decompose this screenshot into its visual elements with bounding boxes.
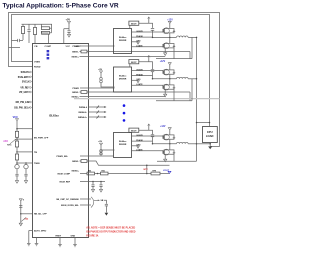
wire UGATE — [132, 31, 163, 33]
supply +5V arrow — [68, 21, 71, 23]
body diode Q4 — [170, 85, 174, 86]
svg-text:VSEN: VSEN — [34, 61, 40, 63]
wire diode leg down — [173, 48, 175, 59]
ground x36.5 — [35, 243, 39, 245]
resistor R_EN3 — [15, 154, 18, 160]
svg-text:CPU: CPU — [207, 130, 213, 134]
svg-text:PHASE: PHASE — [136, 139, 143, 142]
ground chain1 — [15, 181, 18, 184]
wire VOUT bus — [196, 37, 198, 143]
node TSEN — [16, 160, 18, 164]
wire sense stub B — [9, 47, 21, 49]
wire inductor out — [188, 143, 196, 145]
svg-text:VR_HOT#: VR_HOT# — [19, 92, 30, 94]
wire VCC to pin — [16, 121, 18, 132]
wire gnd rail phase2 — [156, 100, 192, 102]
wire phase3 out under load — [197, 143, 211, 145]
wire to VOUT tap — [160, 173, 170, 175]
wire BOOT drop — [129, 64, 131, 67]
ground driver GND — [132, 145, 138, 147]
capacitor C_boot2 — [151, 69, 154, 71]
svg-text:DRIVER: DRIVER — [119, 144, 127, 146]
resistor Rphase — [151, 172, 160, 175]
wire LGATE — [132, 84, 163, 86]
wire LGATE — [132, 46, 163, 48]
wire PHASE — [132, 36, 153, 38]
svg-text:ISUM_REF: ISUM_REF — [59, 181, 70, 183]
body diode Q5 — [170, 135, 174, 136]
resistor R_EN1 — [15, 131, 18, 137]
svg-text:ISEN1+: ISEN1+ — [72, 56, 80, 58]
node phase2 — [153, 78, 177, 80]
wire inductor out — [188, 36, 196, 38]
svg-text:RS2: RS2 — [102, 170, 105, 172]
NTC stub — [146, 165, 148, 173]
wire VOUT branch to load — [197, 122, 210, 124]
wire comp network top rail — [22, 23, 53, 25]
ground chain2 — [24, 181, 27, 184]
svg-text:PWM4-6: PWM4-6 — [79, 106, 88, 109]
wire row A — [108, 173, 151, 175]
svg-text:ISL66xx: ISL66xx — [119, 141, 127, 143]
svg-text:FB: FB — [35, 46, 38, 48]
node TM — [16, 147, 18, 154]
svg-text:ISUM_COMP: ISUM_COMP — [57, 173, 70, 175]
body diode Q3 — [170, 70, 174, 71]
ground RSET — [58, 244, 62, 246]
body diode Q1 — [170, 29, 174, 30]
svg-text:PHASE: PHASE — [136, 35, 143, 38]
transistor Q1 upper MOSFET — [164, 28, 170, 34]
svg-text:RGND: RGND — [34, 66, 41, 68]
body diode Q6 — [170, 150, 174, 151]
svg-text:EN_PWR_CFP: EN_PWR_CFP — [34, 137, 49, 139]
svg-text:SVCLK: SVCLK — [22, 82, 30, 84]
ground AUTO — [27, 243, 31, 245]
svg-text:FIGURE 34.: FIGURE 34. — [86, 234, 99, 237]
svg-text:PHASE: PHASE — [136, 74, 143, 77]
capacitor C_FB — [28, 24, 30, 29]
wire ISUM row A — [80, 173, 87, 175]
svg-text:BOOT: BOOT — [131, 24, 137, 26]
svg-text:+5V: +5V — [98, 69, 102, 71]
node phase1 — [153, 36, 177, 38]
wire BOOT stub up — [148, 124, 150, 130]
svg-text:ISEN3+: ISEN3+ — [72, 171, 80, 173]
capacitor C_VCC — [67, 30, 70, 32]
svg-text:APA: APA — [3, 140, 8, 143]
svg-text:PWM2: PWM2 — [73, 88, 80, 90]
wire BOOT stub up — [148, 17, 150, 23]
wire outer sense loop RGND — [9, 13, 220, 147]
BOOT box phase1 — [129, 21, 139, 25]
transistor Q3 upper MOSFET — [164, 69, 170, 75]
svg-text:Typical Application: 5-Phase C: Typical Application: 5-Phase Core VR — [3, 3, 119, 10]
BOOT box phase2 — [129, 60, 139, 64]
resistor R_EN2 — [15, 141, 18, 147]
svg-text:+5V: +5V — [98, 141, 102, 143]
wire LGATE — [132, 150, 163, 152]
ground lower FET — [164, 154, 166, 159]
wire UGATE — [132, 70, 163, 72]
svg-text:SB_CMP_DC_RSENSE: SB_CMP_DC_RSENSE — [56, 199, 79, 201]
ground C_VCC — [67, 34, 70, 37]
resistor Rsum2 — [101, 172, 109, 175]
supply arrow bottom-left — [19, 199, 22, 201]
svg-text:PWM3_SEL: PWM3_SEL — [57, 156, 69, 158]
transistor Q6 lower MOSFET — [164, 149, 170, 155]
svg-text:RSET: RSET — [56, 236, 62, 238]
ground CPU load — [208, 146, 212, 149]
pin AUTO_MFIO — [29, 230, 33, 232]
ground C_SB — [105, 213, 109, 216]
svg-text:NTC: NTC — [7, 144, 12, 146]
arrow to SB — [94, 199, 100, 201]
transistor Q4 lower MOSFET — [164, 84, 170, 90]
driver U3 ISL66xx — [114, 67, 132, 92]
svg-text:ATL NOTE = DCR SENSE MUST BE P: ATL NOTE = DCR SENSE MUST BE PLACED — [86, 227, 135, 230]
wire BOOT right — [139, 62, 153, 70]
ground GND — [73, 244, 77, 246]
svg-text:+5V: +5V — [66, 18, 71, 21]
diode D_driver3 — [100, 150, 103, 153]
node phase3 — [153, 143, 177, 145]
svg-text:LGATE: LGATE — [136, 149, 143, 152]
wire inductor out — [188, 78, 196, 80]
svg-text:LGATE: LGATE — [136, 83, 143, 86]
svg-text:NB_IDL_CFP: NB_IDL_CFP — [34, 214, 47, 216]
inductor L3 — [177, 142, 189, 143]
pin stub x36.5 — [36, 238, 38, 244]
svg-text:ISEN4-6+: ISEN4-6+ — [78, 116, 88, 119]
BOOT box phase3 — [129, 128, 139, 132]
capacitor on stub A — [17, 39, 19, 42]
svg-text:VCC: VCC — [66, 46, 71, 48]
node NB — [20, 213, 22, 215]
ellipsis dots repeated phases — [123, 104, 126, 107]
svg-text:ISEN1-: ISEN1- — [72, 51, 79, 53]
svg-text:BOOT: BOOT — [131, 131, 137, 133]
thermistor circle — [15, 164, 19, 168]
wire output cap leg phase2 — [191, 79, 193, 101]
wire inner sense loop VSEN — [12, 15, 210, 127]
inductor L1 — [177, 36, 189, 37]
svg-text:ON PHASE3 OUTPUT INDUCTOR AND: ON PHASE3 OUTPUT INDUCTOR AND USED — [86, 231, 136, 234]
svg-text:ISL63xx: ISL63xx — [49, 114, 59, 118]
svg-text:BOOT: BOOT — [131, 62, 137, 64]
wire BOOT right — [139, 130, 153, 134]
resistor R_FB — [21, 27, 24, 34]
wire BOOT drop — [129, 131, 131, 133]
capacitor C_SB — [105, 203, 108, 205]
seam — [74, 98, 220, 100]
svg-text:UGATE: UGATE — [136, 30, 143, 33]
body diode Q2 — [170, 44, 174, 45]
svg-text:DRIVER: DRIVER — [119, 79, 127, 81]
svg-text:ISEN3-: ISEN3- — [72, 161, 79, 163]
pot arrow — [10, 139, 16, 144]
RC branch network — [41, 24, 43, 27]
wire diode leg down — [173, 89, 175, 101]
wire down — [20, 201, 22, 223]
svg-text:AUTO_MFIO: AUTO_MFIO — [34, 230, 47, 233]
wire BOOT right — [139, 23, 153, 28]
CPU load box — [203, 127, 218, 143]
svg-text:LGATE: LGATE — [136, 45, 143, 48]
driver U2 ISL66xx — [114, 29, 132, 54]
svg-text:NTC: NTC — [144, 169, 149, 171]
wire gnd rail phase1 — [156, 58, 192, 60]
branch chain2 — [25, 162, 27, 164]
svg-text:DR_PW_EN#: DR_PW_EN# — [16, 102, 31, 104]
svg-text:TM: TM — [34, 152, 37, 154]
ground C_isum2 — [99, 189, 102, 192]
ground C_isum1 — [91, 189, 94, 192]
wire BOOT stub up — [148, 56, 150, 62]
capacitor C_isum1 — [92, 181, 94, 183]
svg-text:ISEN2-: ISEN2- — [72, 92, 79, 94]
pot arrow bottom-left — [21, 217, 26, 221]
svg-text:UGATE: UGATE — [136, 134, 143, 137]
svg-text:PWM1: PWM1 — [73, 46, 80, 48]
svg-text:DRIVER: DRIVER — [119, 40, 127, 42]
wire PHASE — [132, 140, 153, 142]
svg-text:SVALERT#: SVALERT# — [18, 76, 31, 79]
svg-text:COMP: COMP — [45, 46, 52, 48]
wire SB cap — [104, 200, 106, 204]
wire +5V to VCC — [68, 24, 70, 31]
wire sense stub A — [12, 40, 18, 42]
wire diode leg down — [173, 154, 175, 161]
ground bottom-left — [19, 223, 22, 226]
svg-text:GND: GND — [71, 236, 76, 238]
svg-text:ISEN4-6-: ISEN4-6- — [78, 111, 87, 114]
svg-text:+12V: +12V — [160, 61, 166, 63]
svg-text:LOAD: LOAD — [206, 134, 214, 138]
diode D_driver2 — [100, 77, 103, 80]
blue marker stack — [47, 50, 50, 52]
wire output cap leg phase1 — [191, 37, 193, 58]
driver U4 ISL66xx — [114, 133, 132, 158]
node FS — [16, 137, 18, 141]
ground driver GND — [132, 79, 138, 81]
wire BOOT drop — [129, 25, 131, 28]
svg-text:RS1: RS1 — [88, 170, 91, 172]
wire gnd rail phase3 — [157, 160, 197, 162]
controller IC U1 ISL63xx — [33, 44, 89, 238]
resistor Rsum1 — [87, 172, 95, 175]
capacitor C_boot1 — [151, 27, 154, 29]
capacitor C_boot3 — [151, 134, 154, 136]
wire PHASE — [132, 75, 153, 77]
transistor Q2 lower MOSFET — [164, 43, 170, 49]
ground lower FET — [164, 48, 166, 53]
svg-text:+12V: +12V — [160, 126, 166, 128]
inductor L2 — [177, 77, 189, 78]
wire UGATE — [132, 135, 163, 137]
svg-text:SVDATA: SVDATA — [21, 71, 31, 74]
capacitor C_T1 — [16, 169, 18, 174]
svg-text:UGATE: UGATE — [136, 68, 143, 71]
svg-text:RPH: RPH — [153, 171, 156, 173]
wire load bottom — [209, 143, 211, 147]
ground driver GND — [132, 41, 138, 43]
svg-text:IMON_DCRN_SEL: IMON_DCRN_SEL — [61, 205, 80, 207]
capacitor C_isum2 — [100, 181, 102, 183]
svg-text:DB_PW_SEL#: DB_PW_SEL# — [14, 108, 30, 110]
svg-text:TSEN: TSEN — [34, 163, 40, 165]
ground lower FET — [164, 89, 166, 94]
wire COMP drop — [48, 34, 50, 43]
svg-text:ISL66xx: ISL66xx — [119, 76, 127, 78]
bracket connector — [91, 197, 94, 208]
capacitor C_BL — [19, 205, 22, 207]
svg-text:ISL66xx: ISL66xx — [119, 37, 127, 39]
transistor Q5 upper MOSFET — [164, 134, 170, 140]
resistor R_C — [33, 28, 36, 35]
svg-text:VR_RDY: VR_RDY — [20, 88, 30, 90]
